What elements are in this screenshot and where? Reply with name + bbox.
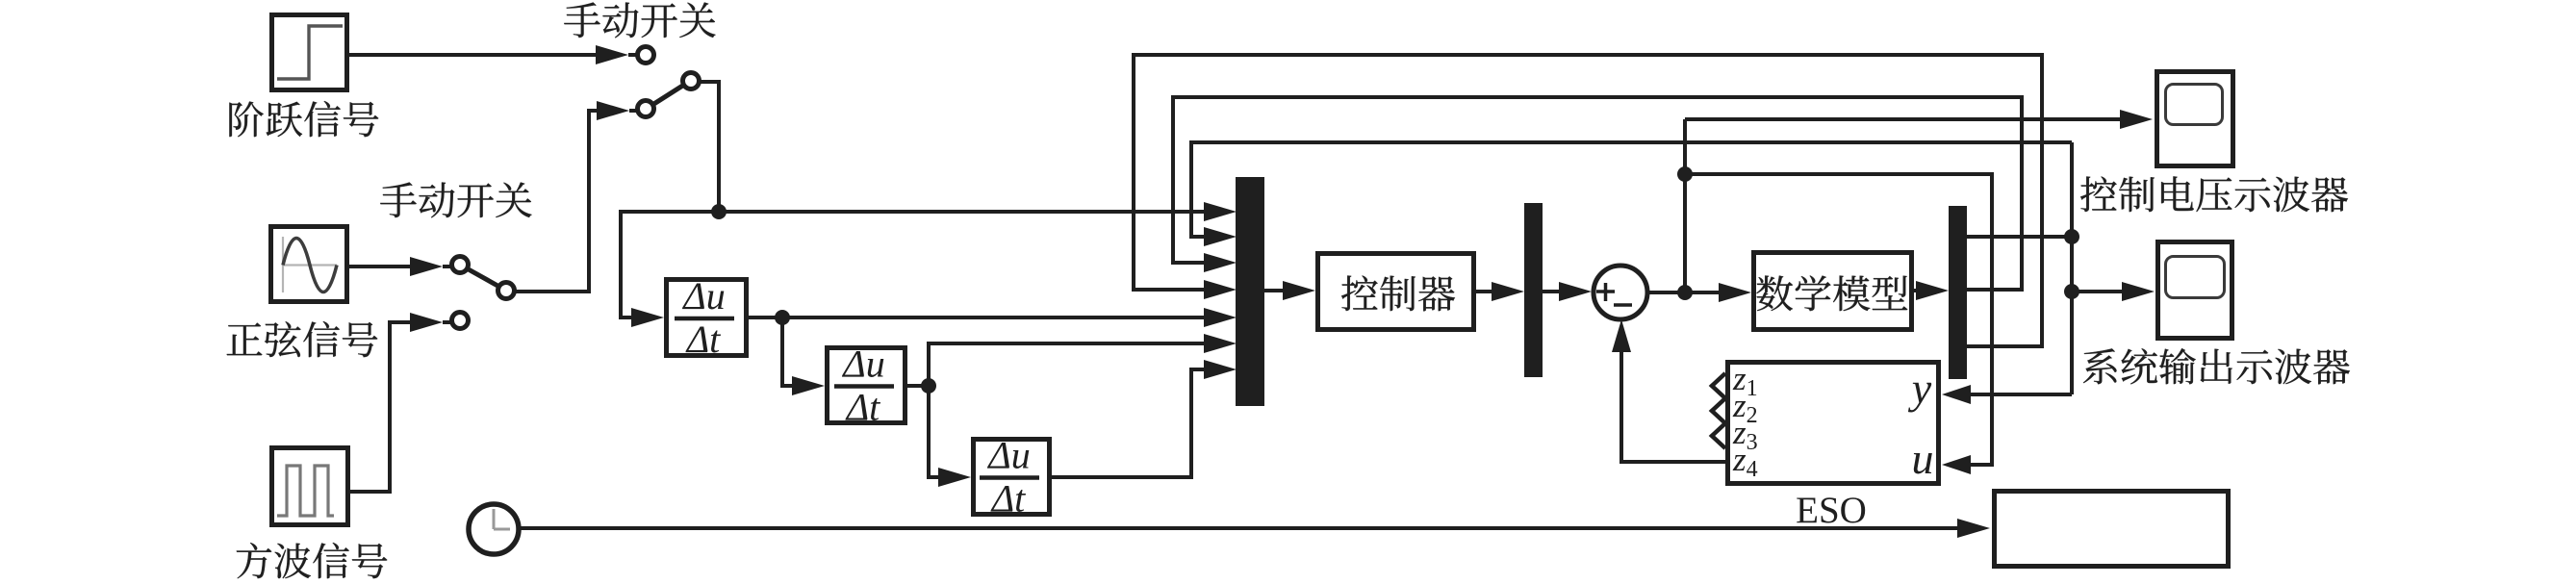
svg-text:Δt: Δt — [845, 386, 880, 429]
svg-text:y: y — [1908, 364, 1932, 413]
svg-text:Δu: Δu — [986, 434, 1030, 477]
svg-text:Δt: Δt — [685, 317, 721, 361]
svg-text:u: u — [1912, 434, 1934, 483]
svg-text:Δu: Δu — [681, 274, 725, 317]
svg-text:Δu: Δu — [841, 343, 884, 386]
svg-text:Δt: Δt — [990, 477, 1026, 521]
svg-text:ESO: ESO — [1796, 490, 1867, 531]
